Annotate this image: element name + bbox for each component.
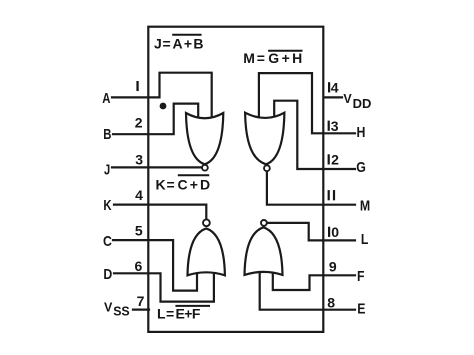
svg-text:D: D — [103, 266, 112, 283]
svg-text:M: M — [360, 197, 370, 214]
svg-text:C: C — [103, 233, 112, 250]
svg-text:DD: DD — [353, 96, 372, 111]
svg-text:8: 8 — [327, 294, 335, 310]
svg-text:V: V — [104, 301, 113, 315]
svg-text:L: L — [157, 305, 166, 321]
svg-text:F: F — [357, 268, 365, 285]
svg-text:A+B: A+B — [173, 36, 205, 52]
svg-text:J: J — [104, 161, 110, 178]
svg-text:G+H: G+H — [268, 50, 304, 66]
svg-text:4: 4 — [331, 79, 339, 95]
svg-text:V: V — [343, 92, 352, 106]
svg-text:2: 2 — [135, 114, 143, 130]
svg-text:2: 2 — [331, 152, 339, 168]
svg-text:0: 0 — [331, 224, 339, 240]
svg-text:6: 6 — [135, 258, 143, 274]
svg-text:4: 4 — [135, 187, 143, 203]
svg-text:K: K — [156, 176, 166, 192]
svg-text:G: G — [356, 159, 366, 176]
svg-text:K: K — [103, 197, 111, 214]
svg-text:5: 5 — [135, 223, 143, 239]
svg-text:9: 9 — [329, 259, 337, 275]
svg-text:3: 3 — [331, 118, 339, 134]
svg-text:=: = — [163, 36, 171, 52]
svg-text:C+D: C+D — [178, 176, 213, 192]
svg-text:H: H — [357, 124, 366, 141]
svg-text:SS: SS — [113, 304, 130, 319]
svg-text:B: B — [103, 126, 111, 143]
svg-text:=: = — [257, 50, 265, 66]
svg-text:E+F: E+F — [176, 305, 201, 321]
svg-text:=: = — [167, 176, 175, 192]
svg-text:A: A — [102, 90, 110, 107]
svg-text:L: L — [361, 231, 369, 248]
svg-text:3: 3 — [135, 151, 143, 167]
svg-text:J: J — [154, 36, 162, 52]
svg-text:7: 7 — [137, 293, 145, 309]
svg-text:M: M — [243, 50, 255, 66]
svg-text:E: E — [357, 300, 365, 317]
svg-text:=: = — [166, 305, 174, 321]
